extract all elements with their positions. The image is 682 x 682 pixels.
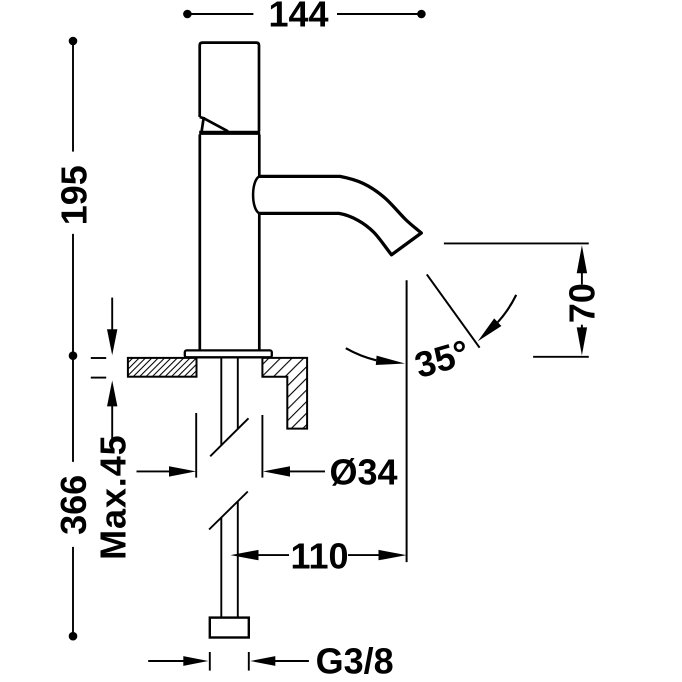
svg-text:G3/8: G3/8: [316, 641, 394, 682]
svg-text:70: 70: [561, 283, 602, 323]
svg-text:Ø34: Ø34: [329, 452, 397, 493]
svg-text:110: 110: [290, 535, 348, 576]
svg-text:366: 366: [53, 475, 94, 535]
svg-text:144: 144: [268, 0, 328, 35]
svg-text:195: 195: [53, 165, 94, 225]
svg-text:Max.45: Max.45: [92, 434, 133, 559]
